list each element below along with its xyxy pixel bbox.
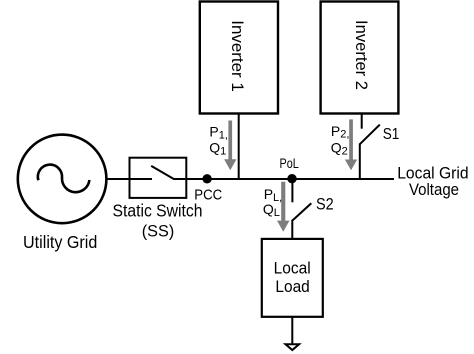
wire: circle to static switch box: [106, 178, 130, 180]
svg-text:Utility Grid: Utility Grid: [23, 232, 97, 252]
svg-text:Local: Local: [274, 259, 311, 278]
arrow PL QL power flow: [277, 182, 290, 232]
inverter U1 box: [200, 2, 278, 114]
wire: PoL down to switch S2 upper contact: [291, 179, 293, 202]
local load box: [262, 239, 323, 317]
svg-text:Inverter 2: Inverter 2: [352, 20, 371, 90]
wire: left contact inside SS box: [129, 178, 152, 180]
wire: local load to ground: [291, 317, 293, 344]
svg-text:Load: Load: [275, 277, 309, 296]
svg-text:Inverter 1: Inverter 1: [228, 20, 247, 92]
wire: switch S1 to bus: [359, 144, 361, 180]
AC sine symbol: [38, 165, 90, 193]
svg-text:PCC: PCC: [194, 187, 222, 203]
svg-text:S1: S1: [383, 126, 400, 143]
svg-text:Q2: Q2: [331, 139, 348, 157]
node PCC: [202, 174, 211, 183]
switch blade SS: [151, 166, 174, 179]
wire: switch S2 to local load: [291, 221, 293, 239]
node PoL: [287, 174, 296, 183]
switch S2 blade: [292, 203, 312, 221]
svg-text:Static Switch: Static Switch: [113, 201, 203, 221]
switch S1 blade: [360, 125, 380, 145]
inverter U2 box: [321, 2, 399, 114]
wire: inverter 1 to bus: [238, 113, 240, 179]
arrow P1 Q1 power flow: [224, 121, 236, 171]
svg-text:(SS): (SS): [142, 222, 175, 241]
utility grid source circle: [18, 135, 107, 224]
static switch SS box: [130, 158, 187, 198]
ground: [286, 344, 300, 350]
svg-text:Voltage: Voltage: [409, 180, 459, 199]
svg-text:PoL: PoL: [280, 155, 299, 171]
wire: main bus (local grid voltage bus): [174, 178, 395, 180]
svg-text:Q1: Q1: [209, 140, 226, 158]
svg-text:S2: S2: [316, 194, 334, 213]
svg-text:P2,: P2,: [331, 123, 350, 141]
wire: inverter 2 upper contact: [361, 113, 363, 129]
arrow P2 Q2 power flow: [345, 119, 357, 170]
